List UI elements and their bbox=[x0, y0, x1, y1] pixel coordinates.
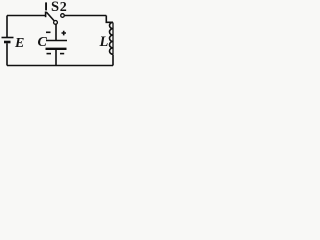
svg-text:C: C bbox=[38, 35, 48, 50]
svg-text:S: S bbox=[51, 0, 59, 15]
svg-text:L: L bbox=[99, 34, 109, 50]
svg-text:E: E bbox=[14, 36, 24, 51]
svg-text:2: 2 bbox=[60, 0, 67, 15]
